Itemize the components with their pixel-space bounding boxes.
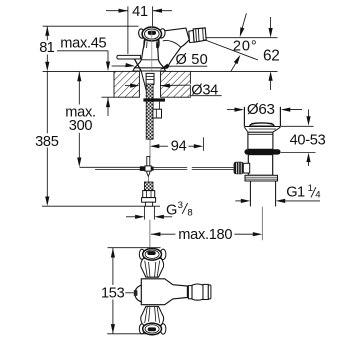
centerline: drain tail axis (max.180 right extension) (261, 207, 263, 241)
dimension Ø63 (drain flange) (227, 109, 240, 111)
rod clamp block (140, 166, 145, 171)
pop-up rod through hole (diagonal) (141, 72, 148, 97)
drain flange bottom edge (244, 126, 280, 128)
extension line: 40-53 bottom reference (281, 152, 316, 154)
svg-text:Ø34: Ø34 (191, 83, 218, 99)
pop-up rod lever (side view) (117, 55, 141, 59)
dimension 62 (outlet height) (270, 17, 272, 33)
plan view: bottom handle skirt (141, 306, 164, 325)
handle skirt (side view) (143, 39, 159, 48)
extension line: 153 top reference (108, 247, 161, 249)
knob stem (243, 163, 249, 173)
hose end braid segment (144, 182, 153, 191)
thread label G3/8 (supply) (126, 216, 140, 218)
extension line: faucet top level (ref for 81/385) (43, 25, 139, 27)
plan view: aerator barrel (192, 284, 203, 300)
svg-text:385: 385 (35, 134, 59, 150)
rubber seal O-ring (black) (245, 149, 281, 154)
extension line: deck top extended right (ref for 62) (190, 70, 277, 72)
svg-text:G1: G1 (286, 185, 305, 201)
plan view: back boss circle (135, 285, 152, 302)
svg-text:94: 94 (171, 138, 187, 154)
dimension 40-53 (clamping range) (308, 110, 310, 122)
plan view: faucet body (141, 279, 187, 305)
pop-up plug cap (250, 123, 274, 126)
dimension 385 (overall height) (46, 71, 48, 133)
svg-text:1: 1 (308, 183, 313, 194)
handle side lobes (side view) (138, 28, 145, 38)
horizontal pop-up rod (left part) (80, 166, 145, 168)
escutcheon base plate (Ø50, side view) (133, 68, 166, 71)
cartridge / shank inside deck hole (146, 73, 154, 84)
plan view: aerator end cap (208, 285, 211, 299)
extension line: 40-53 top reference (281, 125, 314, 127)
centerline: supply tail axis (149, 220, 151, 248)
svg-text:40-53: 40-53 (290, 133, 326, 149)
svg-text:153: 153 (101, 285, 125, 301)
dimension max.180 (faucet to drain) (151, 232, 161, 236)
extension line: 153 bottom reference (107, 333, 159, 335)
plan view: bottom handle slot (148, 327, 156, 331)
drain flange flare (244, 127, 280, 132)
pop-up rod from lever to deck (diagonal) (135, 59, 142, 71)
svg-text:max.180: max.180 (178, 227, 232, 243)
svg-text:Ø63: Ø63 (247, 101, 275, 118)
extension line: deck bottom extended left (ref for max.45) (102, 96, 115, 98)
plan view: top handle slot (147, 251, 155, 255)
G3/8 connection nut (143, 191, 155, 198)
dimension 94 (150, 144, 160, 148)
G3/8 stem (145, 202, 152, 206)
svg-text:3: 3 (178, 200, 183, 211)
plan view: aerator ring (203, 284, 208, 299)
drain neck (248, 132, 273, 149)
plan view: pop-up rod tip (125, 292, 134, 294)
extension line: deck top extended left (43, 70, 114, 72)
centerline: hose axis below deck (149, 139, 151, 157)
faucet body and base flare (side view) (134, 40, 164, 68)
mounting nut on shank (159, 102, 161, 110)
horizontal pop-up rod (right parts) (154, 166, 188, 168)
plan view: top handle cap (143, 249, 162, 261)
aerator / mousseur at 20deg (side view) (189, 30, 194, 42)
thread label G1 1/4 (drain tail) (235, 200, 246, 202)
plan view: top handle lobes (139, 249, 144, 259)
handle index slot (side view) (148, 31, 156, 35)
plan view: top handle skirt (141, 258, 164, 277)
svg-text:62: 62 (263, 48, 280, 65)
svg-text:8: 8 (187, 207, 192, 218)
drain tailpipe (G1 1/4) (249, 181, 251, 206)
dimension Ø50 (escutcheon) (112, 65, 127, 67)
pop-up rod vertical bar (147, 157, 150, 177)
dimension Ø34 (deck hole) (125, 85, 135, 87)
faucet spout arm (side view) (157, 28, 189, 68)
drain lower body (248, 155, 272, 176)
svg-text:300: 300 (69, 118, 93, 134)
centerline: below cross fitting (147, 176, 149, 182)
G3/8 nut flange (142, 198, 156, 203)
svg-text:max.45: max.45 (60, 36, 106, 52)
dimension 153 (overall width, plan) (111, 248, 115, 258)
G3/8 thread tails (144, 206, 146, 219)
plan view: bottom handle lobes (139, 324, 144, 334)
flexible braided supply hose (146, 84, 153, 139)
deck / mounting surface cross-section (hatched, hole Ø34) (114, 71, 139, 97)
svg-text:Ø 50: Ø 50 (176, 52, 208, 68)
centerline: faucet axis over handle (151, 26, 153, 71)
svg-text:41: 41 (132, 4, 148, 20)
drain flange bell walls (Ø63, open top) (243, 107, 245, 127)
dimension max.300 (deck to supply) (77, 72, 81, 82)
extension line: 94 right (202, 137, 204, 151)
mounting horseshoe flange under deck (143, 98, 165, 101)
extension line: 385 bottom reference (42, 205, 160, 207)
handle cap (side view) (142, 27, 161, 41)
dimension 41 (lever to centerline) (106, 10, 128, 12)
svg-text:G: G (166, 203, 177, 219)
dimension 81 (top to deck) (45, 26, 49, 36)
svg-text:20°: 20° (233, 38, 258, 54)
pull-rod knurled knob (234, 162, 244, 174)
dimension 20° (spout angle) (205, 37, 277, 39)
plan view: spout collar (188, 286, 192, 299)
plan view: bottom handle cap (143, 323, 162, 335)
svg-text:81: 81 (39, 40, 54, 56)
drain bottom collar (245, 175, 278, 181)
